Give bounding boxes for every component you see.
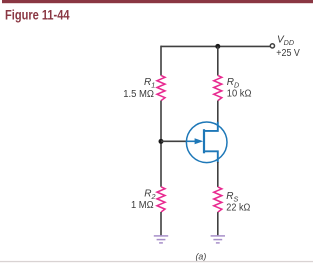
- node: gate junction: [159, 139, 164, 144]
- ground (right): [211, 236, 225, 243]
- transistor Q1 (n-channel JFET): [186, 122, 227, 163]
- bottom separator line: [0, 261, 313, 262]
- wire: source rail: [217, 162, 219, 187]
- wire: left rail middle: [160, 101, 162, 187]
- node: top junction: [215, 44, 220, 49]
- svg-text:+25 V: +25 V: [276, 48, 300, 59]
- wire: gate lead: [161, 140, 186, 142]
- VDD terminal: [270, 44, 274, 48]
- wire: right rail top: [217, 46, 219, 75]
- wire: drain rail: [217, 101, 219, 124]
- wire: right rail bottom: [217, 212, 219, 235]
- gate arrowhead: [195, 138, 204, 144]
- ground (left): [154, 236, 168, 243]
- figure title bar: [2, 0, 313, 3]
- wire: left rail bottom: [160, 212, 162, 235]
- wire: left rail top: [160, 46, 162, 76]
- svg-text:1.5 MΩ: 1.5 MΩ: [123, 89, 154, 100]
- svg-text:10 kΩ: 10 kΩ: [227, 89, 252, 100]
- wire: VDD supply top rail: [161, 45, 270, 47]
- svg-text:1 MΩ: 1 MΩ: [131, 200, 154, 211]
- svg-text:22 kΩ: 22 kΩ: [226, 202, 250, 213]
- resistor RD: [214, 75, 222, 100]
- svg-text:(a): (a): [196, 252, 207, 262]
- resistor RS: [214, 187, 222, 212]
- resistor R2: [157, 187, 165, 212]
- resistor R1: [157, 75, 165, 100]
- svg-text:Figure 11-44: Figure 11-44: [5, 6, 70, 22]
